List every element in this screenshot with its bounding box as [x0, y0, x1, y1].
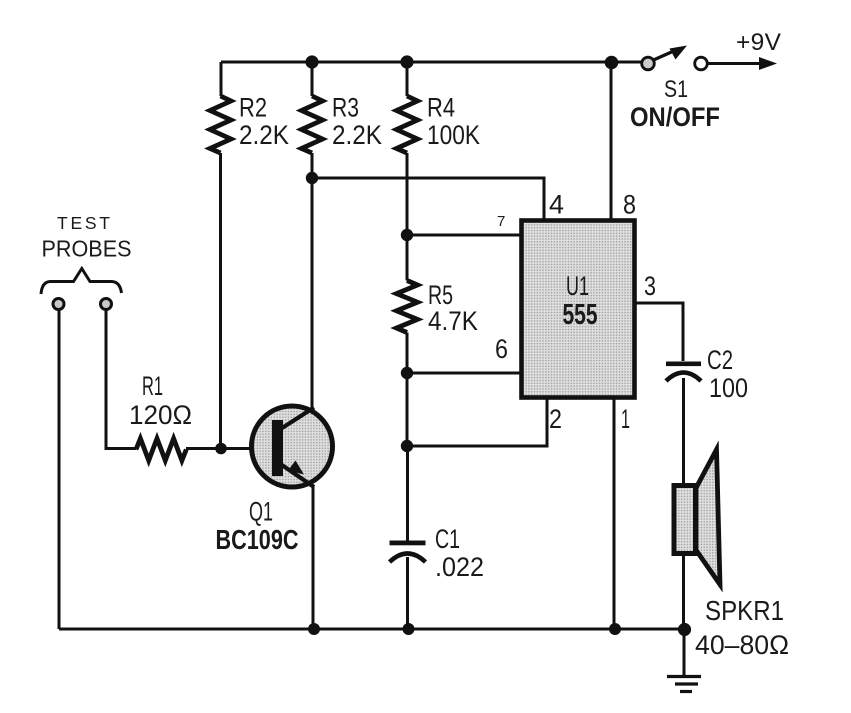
svg-text:7: 7	[497, 213, 505, 230]
switch S1	[642, 46, 777, 71]
svg-text:3: 3	[644, 271, 656, 301]
svg-text:2.2K: 2.2K	[239, 120, 289, 150]
node bottom pin1	[609, 623, 621, 635]
capacitor C2	[666, 362, 701, 382]
svg-text:.022: .022	[435, 552, 484, 582]
svg-text:1: 1	[621, 404, 630, 434]
resistor R3	[302, 96, 323, 153]
node bottom emitter	[308, 623, 320, 635]
node bottom speaker	[678, 623, 691, 636]
svg-text:C1: C1	[435, 524, 460, 554]
svg-text:+9V: +9V	[736, 29, 782, 56]
svg-text:100K: 100K	[427, 120, 480, 150]
node pin2	[401, 440, 413, 452]
svg-text:4.7K: 4.7K	[428, 306, 478, 336]
svg-text:SPKR1: SPKR1	[705, 595, 784, 626]
wire R3 bottom to collector	[311, 153, 314, 408]
wire pin 1	[613, 399, 616, 629]
test probes bracket	[41, 269, 122, 295]
svg-text:R2: R2	[239, 93, 267, 123]
wire R2 column top	[220, 62, 223, 96]
wire left probe down	[58, 309, 61, 629]
svg-text:ON/OFF: ON/OFF	[630, 102, 720, 132]
wire top supply rail	[221, 61, 641, 64]
svg-text:100: 100	[709, 373, 748, 403]
node top rail R4	[400, 55, 413, 68]
node top rail R3	[305, 55, 318, 68]
transistor Q1	[252, 406, 333, 487]
node top rail pin8	[605, 56, 619, 70]
wire bottom ground rail	[59, 628, 684, 631]
wire C2 to speaker to bottom rail	[682, 378, 685, 629]
svg-text:BC109C: BC109C	[216, 524, 299, 555]
probe tip right	[101, 299, 112, 310]
svg-text:S1: S1	[664, 76, 688, 103]
wire right probe to R1	[106, 309, 136, 449]
wire pin 7	[407, 234, 521, 237]
svg-text:120Ω: 120Ω	[129, 400, 192, 430]
resistor R2	[210, 96, 231, 153]
wire pin 2	[408, 399, 548, 446]
wire R2 bottom to base junction	[219, 153, 222, 448]
svg-text:Q1: Q1	[249, 497, 273, 527]
svg-text:2.2K: 2.2K	[332, 120, 382, 150]
node pin7	[401, 229, 413, 241]
svg-text:U1: U1	[566, 271, 589, 301]
ground	[667, 629, 701, 692]
wire pin 3 to C2	[636, 303, 683, 361]
svg-text:555: 555	[563, 299, 598, 331]
svg-text:40–80Ω: 40–80Ω	[695, 630, 789, 660]
wire R3 to pin 4	[312, 178, 544, 219]
node pin6	[401, 367, 413, 379]
svg-text:R1: R1	[142, 371, 163, 401]
wire R4 bottom to pin7 junction	[406, 153, 409, 235]
wire R3 column top	[311, 62, 314, 96]
capacitor C1	[390, 541, 426, 630]
wire R5 bottom to C1	[406, 373, 410, 541]
node R3 bottom	[306, 172, 318, 184]
wire emitter down	[312, 485, 315, 629]
speaker SPKR1	[674, 450, 720, 585]
wire R5 leads	[406, 235, 409, 373]
node base	[215, 443, 227, 455]
wire R4 column top	[406, 62, 409, 96]
resistor R4	[397, 96, 418, 153]
node bottom C1	[403, 623, 415, 635]
svg-text:PROBES: PROBES	[42, 236, 132, 262]
wire pin 6	[407, 372, 521, 375]
resistor R1	[136, 439, 186, 461]
svg-text:2: 2	[549, 404, 562, 434]
resistor R5	[397, 281, 418, 333]
IC U1 555 timer body	[522, 221, 635, 398]
probe tip left	[53, 299, 64, 310]
svg-text:4: 4	[549, 190, 564, 220]
wire pin 8	[610, 62, 613, 219]
wire R1 to base	[186, 447, 272, 450]
svg-text:6: 6	[495, 334, 508, 364]
svg-text:R4: R4	[427, 93, 455, 123]
svg-text:8: 8	[623, 190, 636, 220]
svg-text:C2: C2	[707, 345, 733, 375]
svg-text:R3: R3	[332, 93, 359, 123]
